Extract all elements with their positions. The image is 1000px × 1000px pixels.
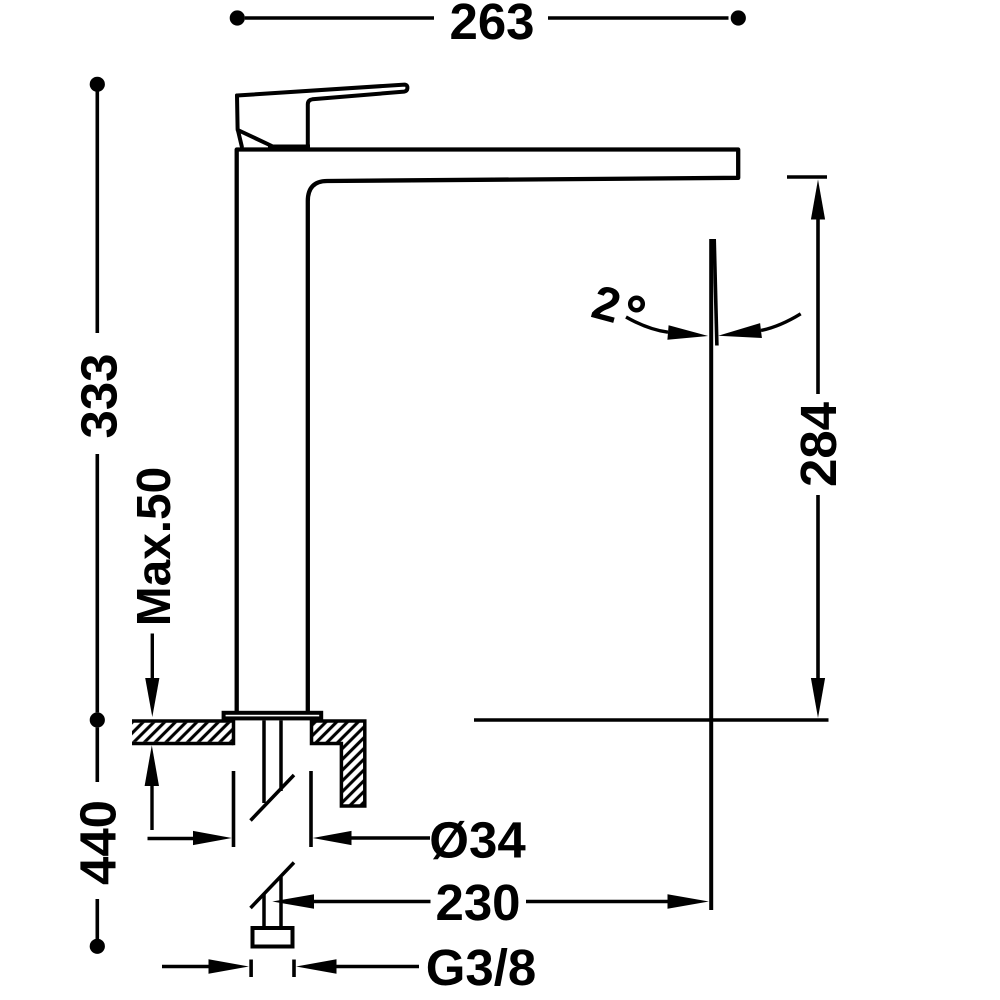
Max.50 up arrowhead	[145, 745, 159, 786]
svg-text:Ø34: Ø34	[429, 811, 526, 868]
Max.50 upper extension line	[151, 634, 154, 679]
G3/8 connector	[253, 928, 293, 947]
svg-text:G3/8: G3/8	[426, 939, 537, 996]
Max.50 down arrowhead	[145, 678, 159, 717]
mounting flange	[224, 713, 322, 719]
label Max.50	[136, 469, 170, 623]
supply pipe lower segment	[262, 894, 266, 927]
faucet body and spout outline	[237, 150, 739, 713]
Ø34 right arrowhead	[313, 831, 352, 845]
supply pipe upper segment	[251, 721, 295, 928]
dimension 230	[305, 900, 676, 904]
dimension 284 right	[474, 177, 829, 720]
countertop left section hatch	[132, 723, 232, 742]
countertop right section	[312, 721, 365, 806]
dimension 263 top	[245, 16, 729, 20]
break slash 2	[251, 863, 295, 909]
2 degree arc arrow right	[761, 314, 801, 331]
degree circle	[630, 298, 643, 311]
284 up arrowhead	[811, 180, 825, 220]
dimension G3/8	[162, 960, 419, 978]
svg-text:230: 230	[435, 874, 520, 931]
dot middle	[90, 712, 105, 727]
dot top 333	[90, 77, 105, 92]
Ø34 left arrowhead	[193, 831, 232, 845]
left dimension chain	[96, 90, 100, 939]
dot left 263	[230, 10, 245, 25]
dot right 263	[731, 10, 746, 25]
svg-text:284: 284	[790, 401, 847, 487]
countertop left section outline	[132, 719, 234, 745]
svg-text:440: 440	[69, 800, 126, 885]
dot bottom 440	[90, 939, 105, 954]
dimension Ø34	[148, 771, 431, 847]
230 right arrowhead	[668, 894, 709, 908]
Max.50 lower extension line	[150, 786, 153, 830]
svg-text:333: 333	[70, 353, 127, 438]
faucet handle lever	[237, 85, 407, 147]
label 2 glyph	[591, 285, 622, 323]
svg-text:263: 263	[449, 0, 534, 50]
230 left arrowhead	[272, 894, 314, 908]
aerator reference vertical line	[709, 239, 713, 910]
2 degree arc arrow left	[626, 317, 668, 332]
break slash 1	[251, 775, 295, 821]
284 down arrowhead	[811, 678, 825, 718]
handle seat line	[268, 144, 310, 149]
G3/8 right arrowhead	[296, 959, 336, 973]
G3/8 left arrowhead	[209, 959, 249, 973]
aerator tilted 2 degree line	[714, 239, 717, 346]
